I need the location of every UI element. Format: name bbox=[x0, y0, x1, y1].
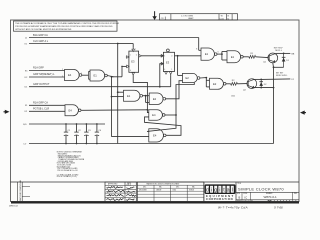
net GRP SP RESET label bbox=[33, 73, 55, 76]
svg-text:W870-0-1: W870-0-1 bbox=[264, 195, 278, 199]
svg-text:W: W bbox=[221, 16, 223, 18]
power rail +10V bbox=[29, 123, 105, 125]
wire Q1 collector out bbox=[276, 52, 291, 54]
wire E2a out bbox=[200, 77, 206, 79]
node E1b out junction bbox=[145, 95, 147, 97]
svg-text:2: 2 bbox=[62, 69, 63, 71]
net CLK GRP A L label bbox=[33, 40, 49, 43]
ground rail bbox=[29, 143, 274, 145]
pin F1 label bbox=[25, 105, 28, 107]
diode D1 bbox=[282, 53, 290, 67]
svg-text:DRB 102: DRB 102 bbox=[9, 206, 19, 208]
nand gate E4b latch upper bbox=[149, 110, 165, 121]
node CLK junction bbox=[117, 43, 119, 45]
flip-flop E3 second half bbox=[160, 49, 177, 76]
node row2 out junction bbox=[111, 76, 113, 78]
svg-text:l: l bbox=[232, 188, 233, 194]
svg-text:0: 0 bbox=[171, 56, 172, 58]
nand gate E4a bbox=[65, 70, 82, 81]
svg-text:REV: REV bbox=[294, 193, 297, 195]
svg-text:APPROVED: APPROVED bbox=[108, 183, 118, 186]
pin D1 label bbox=[25, 87, 29, 89]
node D2 top junction bbox=[260, 79, 262, 81]
wire emitter bus horizontal row1 bbox=[274, 66, 284, 68]
svg-text:0: 0 bbox=[164, 69, 165, 71]
capacitor C2 bbox=[74, 123, 81, 144]
revision block bbox=[160, 14, 238, 21]
svg-text:MOD SUS L: MOD SUS L bbox=[276, 75, 288, 77]
wire GRP SP RESET bbox=[29, 76, 65, 78]
wire latch cross feedback A bbox=[147, 115, 176, 131]
svg-text:9-8: 9-8 bbox=[227, 19, 229, 21]
wire E3b out to R1 bbox=[243, 56, 249, 58]
svg-text:1: 1 bbox=[171, 69, 172, 71]
svg-text:E4: E4 bbox=[153, 133, 157, 137]
svg-text:E1: E1 bbox=[231, 55, 235, 59]
svg-text:5 7-66: 5 7-66 bbox=[274, 205, 283, 209]
wire E1b out to E2b bbox=[143, 95, 150, 97]
wire Q2 collector out bbox=[255, 78, 291, 81]
net GRP OUTPUT label bbox=[33, 83, 50, 86]
resistor R2 bbox=[231, 80, 238, 85]
svg-text:g: g bbox=[214, 188, 217, 194]
svg-text:9-7-66: 9-7-66 bbox=[220, 19, 224, 21]
pin F2 label bbox=[292, 79, 295, 81]
svg-text:E1: E1 bbox=[205, 52, 209, 56]
wire emitter bus vertical bbox=[273, 67, 275, 143]
svg-text:3: 3 bbox=[62, 76, 63, 78]
wire R1 to Q1 base bbox=[256, 56, 269, 59]
capacitor C3 bbox=[84, 123, 91, 144]
capacitor C4 bbox=[95, 123, 102, 144]
svg-text:i: i bbox=[211, 188, 212, 194]
wire FF1 Q to FF2 input bbox=[142, 55, 164, 57]
handwritten date bbox=[274, 205, 283, 209]
nand gate E4b bbox=[65, 105, 81, 116]
svg-text:E2: E2 bbox=[213, 82, 217, 86]
svg-text:E4: E4 bbox=[69, 108, 73, 112]
net INT INT MOD SUS L label bbox=[276, 72, 288, 77]
fold mark arrow top bbox=[152, 11, 156, 20]
svg-text:1 2 3V OVEN: 1 2 3V OVEN bbox=[181, 15, 194, 17]
svg-text:CLK GRP A L: CLK GRP A L bbox=[33, 40, 49, 43]
flip-flop E3 first half bbox=[126, 47, 142, 75]
DRB number bbox=[9, 206, 19, 208]
svg-text:B1A GRP CA: B1A GRP CA bbox=[33, 34, 48, 37]
node FF1 left pin junction bbox=[121, 66, 123, 68]
wire B1A GRP CA bbox=[29, 37, 199, 39]
pin C T label bbox=[23, 144, 27, 146]
pin B D label bbox=[23, 124, 27, 126]
svg-text:THE ULTIMATE ACCORDANCE ONLY T: THE ULTIMATE ACCORDANCE ONLY THE TOP AND… bbox=[15, 22, 119, 25]
svg-text:E1: E1 bbox=[94, 74, 98, 78]
signature table bbox=[105, 182, 136, 202]
wire FF2 lower left loop bbox=[160, 64, 164, 87]
svg-text:1: 1 bbox=[130, 54, 131, 56]
svg-text:1: 1 bbox=[81, 73, 82, 75]
net INT 9V07 MOD L label bbox=[274, 47, 284, 52]
bottom strip divider bbox=[11, 181, 300, 183]
svg-text:E4: E4 bbox=[152, 113, 156, 117]
net PGTSB CLR label bbox=[33, 108, 49, 111]
node E1c out junction bbox=[221, 53, 223, 55]
resistor R1 bbox=[249, 53, 256, 58]
svg-text:E1: E1 bbox=[127, 94, 131, 98]
handwritten note left bbox=[218, 205, 248, 209]
node E4b output junction bbox=[147, 109, 149, 111]
svg-text:1N3606: 1N3606 bbox=[189, 190, 194, 192]
svg-text:T: T bbox=[135, 49, 136, 51]
svg-text:E2: E2 bbox=[185, 76, 189, 80]
nand gate E2b bbox=[149, 93, 165, 105]
node D1 top junction bbox=[283, 53, 285, 55]
wire FF2 Q to E1 gate row1 bbox=[178, 55, 201, 57]
svg-text:W-? T=4x?5y CdA: W-? T=4x?5y CdA bbox=[218, 205, 248, 209]
nand gate E4c latch lower bbox=[149, 129, 166, 142]
diode D2 bbox=[259, 79, 267, 87]
wire E2c out to R2 bbox=[226, 83, 231, 85]
general note box bbox=[14, 21, 119, 31]
nand gate E1b bbox=[124, 90, 143, 101]
nand gate E2a bbox=[183, 73, 200, 82]
drawing frame border bbox=[11, 20, 300, 202]
node E2a out junction bbox=[205, 77, 207, 79]
svg-text:MOD L: MOD L bbox=[275, 50, 282, 52]
svg-text:6: 6 bbox=[218, 52, 219, 54]
svg-text:0: 0 bbox=[136, 54, 137, 56]
svg-text:INT INT: INT INT bbox=[276, 72, 284, 74]
svg-text:GRP SP(RESET) L: GRP SP(RESET) L bbox=[33, 73, 55, 76]
svg-text:PGTSB L CLR: PGTSB L CLR bbox=[33, 108, 49, 111]
svg-text:SIZE: SIZE bbox=[237, 193, 240, 195]
wire CLK GRP A L bbox=[29, 43, 118, 45]
transistor diode conversion chart bbox=[137, 182, 204, 202]
wire E1b out to E2b lower bbox=[146, 96, 150, 103]
svg-text:LAMP: LAMP bbox=[188, 17, 194, 20]
svg-text:WITHOUT ANY OF DIGITAL MULTIPL: WITHOUT ANY OF DIGITAL MULTIPLIED EXPRES… bbox=[15, 28, 72, 31]
wire R1A GRP CA lower bbox=[29, 104, 65, 106]
svg-text:B,D: B,D bbox=[23, 124, 27, 126]
wire Q1 emitter down bbox=[272, 63, 275, 68]
wire clk tap to E1b in1 bbox=[118, 91, 124, 93]
transistor Q2 bbox=[243, 79, 257, 92]
DEC digital logo block bbox=[204, 182, 236, 203]
nand gate E1c bbox=[201, 48, 217, 60]
pin E1 label bbox=[25, 70, 28, 72]
svg-text:E3: E3 bbox=[166, 60, 170, 64]
wire row2 out to FF1 pin bbox=[112, 66, 129, 76]
node Q2 emitter junction bbox=[260, 87, 274, 89]
svg-text:DWG REV STATUS AB: DWG REV STATUS AB bbox=[19, 180, 22, 201]
svg-text:SIMPLE CLOCK W870: SIMPLE CLOCK W870 bbox=[238, 186, 284, 191]
node clk tap junction bbox=[117, 91, 119, 93]
wire E1a output bbox=[107, 76, 113, 77]
fold mark arrow left bbox=[4, 110, 10, 114]
wire R1A GRP bbox=[29, 70, 65, 72]
svg-text:DEC3639B: DEC3639B bbox=[139, 190, 147, 192]
wire PGTSB CLR bbox=[29, 110, 65, 112]
svg-text:2N3639: 2N3639 bbox=[156, 190, 161, 192]
fold mark arrow right bbox=[300, 111, 306, 115]
svg-text:E2: E2 bbox=[153, 97, 157, 101]
pin K1 label bbox=[25, 43, 28, 45]
node FF2 loop to GRP OUTPUT bbox=[159, 86, 161, 88]
wire E2b out riser bbox=[166, 81, 183, 99]
pin BB label bbox=[292, 53, 295, 55]
wire CLK to FF1 T input bbox=[118, 44, 134, 48]
svg-text:TITLE: TITLE bbox=[237, 183, 241, 185]
wire Q2 emitter down bbox=[252, 87, 274, 90]
wire latch upper out bbox=[165, 114, 176, 116]
wire latch cross feedback B bbox=[145, 117, 182, 135]
svg-text:i: i bbox=[219, 188, 220, 194]
wire row2 out vertical to latch bbox=[112, 77, 149, 137]
node FF2 Q junction bbox=[177, 55, 179, 57]
svg-text:E4: E4 bbox=[68, 73, 72, 77]
pin K2 label bbox=[25, 111, 28, 113]
svg-text:a: a bbox=[227, 188, 230, 194]
wire FF2 Q down to E2 bbox=[178, 56, 183, 76]
svg-text:PRINTED CIRCUIT REV.: PRINTED CIRCUIT REV. bbox=[237, 201, 254, 203]
svg-text:CODE: CODE bbox=[243, 193, 247, 195]
svg-text:D664: D664 bbox=[173, 190, 177, 192]
svg-text:B: B bbox=[239, 195, 241, 199]
wire GRP OUTPUT bbox=[29, 76, 171, 87]
svg-text:INT 9V07: INT 9V07 bbox=[274, 47, 284, 49]
svg-text:PRODUCED HOWEVER WHATEVER ARE: PRODUCED HOWEVER WHATEVER ARE PRODUCED P… bbox=[15, 25, 113, 28]
transistor Q1 bbox=[263, 53, 278, 64]
nand gate E2c inverter bbox=[210, 78, 227, 89]
pin numbers E4a bbox=[62, 69, 82, 78]
net R1A GRP CA lower label bbox=[33, 102, 48, 105]
resistor R2 value label bbox=[231, 96, 235, 98]
wire tap to E1b in2 bbox=[112, 96, 124, 98]
net R1A GRP label bbox=[33, 67, 44, 70]
svg-text:d: d bbox=[206, 188, 209, 194]
svg-text:0: 0 bbox=[130, 70, 131, 72]
node E1b in2 tap junction bbox=[111, 96, 113, 98]
svg-text:R1A GRP: R1A GRP bbox=[33, 67, 44, 70]
wire R2 to Q2 base bbox=[237, 83, 247, 85]
wire CLK vertical to ground rail bbox=[117, 44, 119, 144]
svg-text:GRP OUTPUT: GRP OUTPUT bbox=[33, 83, 50, 86]
svg-text:PIN 14 ON EACH IC=+5V: PIN 14 ON EACH IC=+5V bbox=[57, 169, 78, 172]
pin numbers E1c bbox=[196, 49, 218, 54]
left revision strip bbox=[18, 180, 31, 202]
nand gate E3b inverter bbox=[227, 51, 243, 63]
wire B1A GRP CA drop to gate E1 pin bbox=[199, 38, 201, 51]
wire FF1 bottom to latch bbox=[133, 75, 149, 112]
wire E4b output to latch bbox=[81, 109, 147, 112]
notes block bbox=[57, 152, 85, 179]
svg-text:1: 1 bbox=[164, 56, 165, 58]
pin J1 label bbox=[25, 37, 28, 39]
svg-text:R14 W ON EACH (1+1.5): R14 W ON EACH (1+1.5) bbox=[57, 175, 77, 178]
svg-text:E3: E3 bbox=[131, 59, 135, 63]
title block bbox=[236, 182, 299, 203]
capacitor C1 bbox=[64, 123, 71, 144]
wire E4a out to E1a bbox=[82, 72, 90, 80]
svg-text:8: 8 bbox=[196, 49, 197, 51]
node latch upper out junction bbox=[175, 114, 177, 116]
svg-text:1500: 1500 bbox=[231, 96, 235, 98]
pin D2 label bbox=[25, 77, 29, 79]
svg-text:IC: IC bbox=[245, 195, 248, 199]
nand gate E1a bbox=[90, 70, 107, 81]
wire E2a out bracket to E2c bbox=[206, 78, 209, 87]
wire latch riser to E2 area bbox=[176, 83, 194, 115]
node Q1 emitter junction bbox=[273, 66, 275, 68]
svg-text:CORPORATION: CORPORATION bbox=[206, 197, 233, 201]
svg-text:R1A GRP CA: R1A GRP CA bbox=[33, 102, 48, 105]
wire E1c out bracket to E3b bbox=[217, 52, 227, 61]
net B1A GRP CA label bbox=[33, 34, 48, 37]
